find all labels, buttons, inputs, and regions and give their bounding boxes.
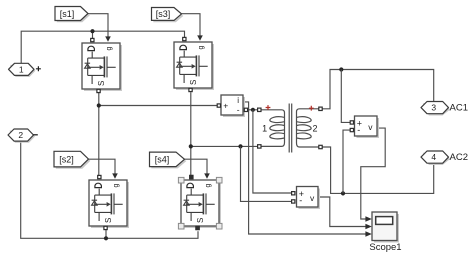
selection handle bottom-left of Q4: [178, 223, 184, 229]
transformer T1 core: [289, 104, 292, 153]
wire: current sensor minus to transformer winding 1 top: [248, 109, 258, 111]
mosfet Q2: [174, 35, 214, 91]
terminal: winding 2 bottom port: [319, 145, 322, 148]
svg-text:Scope1: Scope1: [369, 242, 401, 253]
junction: node B tap to V2 minus: [238, 144, 242, 148]
port 1 (DC input +): [9, 63, 36, 77]
svg-text:2: 2: [18, 130, 23, 140]
polarity mark: winding 1 plus (red): [266, 105, 271, 110]
from tag [s3]: [152, 8, 184, 23]
junction: AC2 trunk tap to V1 minus: [341, 191, 345, 195]
wire: from [s1] to Q1 gate: [88, 14, 108, 37]
svg-text:[s2]: [s2]: [59, 155, 74, 165]
svg-text:-: -: [299, 196, 302, 206]
label: plus sign of port 1: [36, 66, 41, 71]
svg-text:AC1: AC1: [450, 103, 468, 114]
wire: from [s3] to Q2 gate: [182, 14, 201, 36]
svg-text:-: -: [357, 125, 360, 135]
selection handle bottom-right of Q4: [216, 223, 222, 229]
junction: primary top tap to V2 plus: [251, 108, 255, 112]
arrowhead: scope input 2: [365, 224, 371, 230]
transformer T1 winding 1: [261, 110, 285, 147]
arrowhead: scope input 3: [365, 231, 371, 237]
svg-text:2: 2: [312, 123, 317, 133]
wire: tap down to voltage sensor V2 plus input: [253, 110, 292, 193]
port 3 (AC1 output): [421, 102, 450, 116]
mosfet Q1: [82, 36, 122, 92]
svg-text:AC2: AC2: [450, 152, 468, 163]
svg-text:[s4]: [s4]: [155, 155, 170, 165]
voltage measurement block V2: [292, 187, 320, 210]
svg-text:[s3]: [s3]: [156, 9, 171, 19]
transformer T1 winding 2: [297, 109, 321, 147]
svg-text:[s1]: [s1]: [60, 9, 75, 19]
terminal: winding 1 top port: [258, 108, 261, 111]
port 4 (AC2 output): [421, 151, 450, 165]
wire: voltage sensor V1 output to scope input 1: [361, 128, 385, 219]
svg-text:3: 3: [431, 103, 436, 113]
svg-text:+: +: [223, 101, 228, 111]
label: minus sign of port 2: [33, 134, 38, 136]
terminal: winding 1 bottom port: [258, 145, 261, 148]
arrowhead: scope input 1: [365, 216, 371, 222]
scope block Scope1: [372, 212, 399, 243]
mosfet Q3: [89, 173, 129, 229]
current measurement block I1: [217, 95, 247, 117]
wire: from [s2] to Q3 gate: [89, 159, 116, 173]
wire: transformer winding 2 bottom to AC2 trunk: [322, 147, 433, 193]
svg-text:1: 1: [19, 64, 24, 74]
wire: current sensor i output to scope input 3: [243, 102, 366, 234]
junction: node A: [97, 103, 101, 107]
polarity mark: winding 2 plus (red): [309, 106, 314, 111]
svg-text:1: 1: [262, 123, 267, 133]
voltage measurement block V1: [350, 116, 379, 138]
wire: top DC+ trunk from port 1 to MOSFET drains: [21, 31, 184, 63]
from tag [s1]: [55, 7, 90, 23]
wire: transformer winding 2 top to AC1 trunk: [322, 70, 433, 109]
wire: node B tap down to voltage sensor V2 minus input: [241, 146, 292, 201]
wire: voltage sensor V2 output to scope input 2: [318, 197, 366, 227]
wire: from [s4] to Q4 gate: [185, 159, 208, 173]
svg-text:-: -: [237, 104, 240, 114]
wire: node B vertical Q2 source to Q4 drain with rail to transformer winding 1 bottom: [191, 92, 258, 175]
terminal: Q4 drain port (selected, dark): [190, 175, 193, 178]
terminal: winding 2 top port: [319, 107, 322, 110]
wire: node A vertical Q1 source to Q3 drain with mid rail to current sensor: [99, 92, 217, 175]
svg-text:v: v: [368, 122, 373, 132]
port 2 (DC input -): [8, 129, 35, 143]
wire: voltage sensor V1 minus input riser: [343, 130, 350, 193]
from tag [s4]: [150, 152, 187, 168]
wire: bottom DC- rail from port 2 to Q3 and Q4 sources: [21, 141, 198, 238]
junction: AC1 trunk tap to V1 plus: [339, 67, 343, 71]
from tag [s2]: [54, 151, 90, 168]
wire: tap down to voltage sensor V1 plus input: [341, 70, 350, 123]
svg-text:4: 4: [431, 152, 436, 162]
junction: bottom rail at Q3 source: [104, 236, 108, 240]
junction: node B: [189, 144, 193, 148]
terminal: Q4 source port (selected, dark): [196, 226, 199, 229]
selection handle top-left of Q4: [178, 177, 184, 183]
junction: trunk to Q1 drain: [90, 29, 94, 33]
selection handle top-right of Q4: [216, 177, 222, 183]
mosfet Q4: [181, 173, 221, 229]
